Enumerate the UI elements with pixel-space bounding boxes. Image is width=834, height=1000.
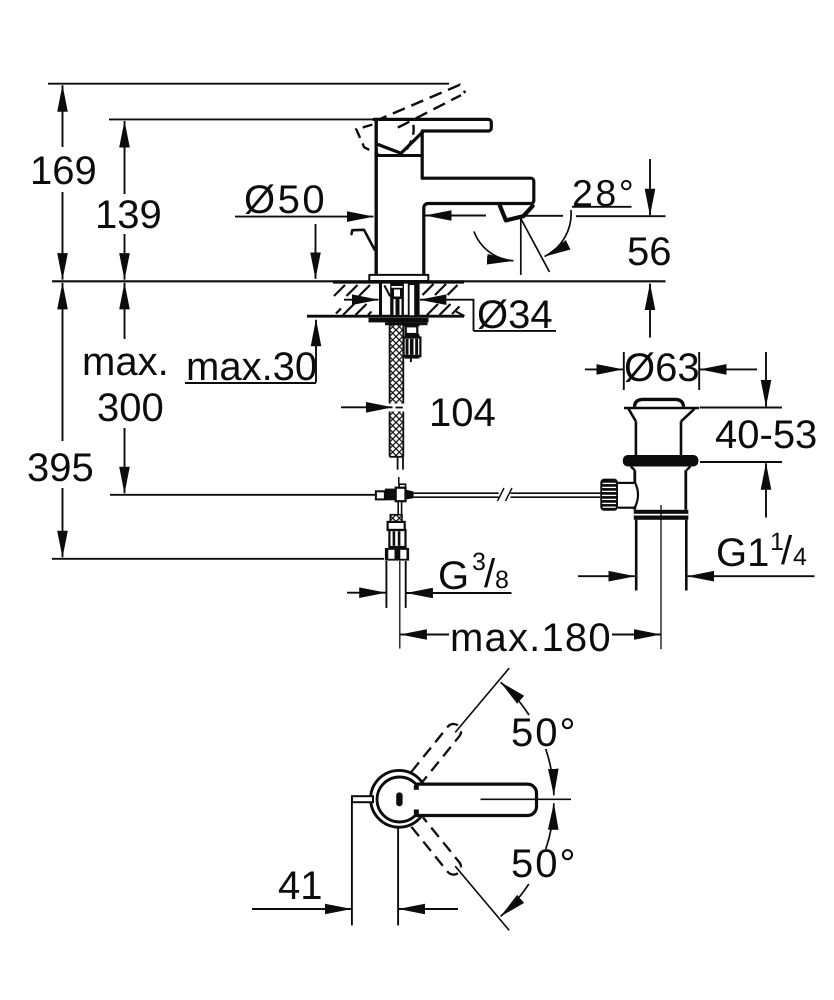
svg-text:50°: 50°	[511, 842, 578, 886]
svg-text:169: 169	[30, 149, 97, 193]
svg-text:Ø63: Ø63	[624, 346, 700, 390]
svg-text:56: 56	[627, 230, 672, 274]
svg-text:8: 8	[495, 566, 509, 594]
svg-text:395: 395	[27, 446, 94, 490]
svg-text:300: 300	[97, 386, 164, 430]
svg-text:104: 104	[429, 391, 496, 435]
svg-text:40-53: 40-53	[715, 413, 817, 457]
svg-text:41: 41	[278, 864, 323, 908]
svg-text:1: 1	[770, 528, 784, 556]
svg-text:max.: max.	[82, 340, 169, 384]
svg-text:28°: 28°	[572, 172, 636, 214]
svg-text:G1: G1	[716, 531, 769, 575]
svg-text:max.180: max.180	[450, 616, 612, 660]
svg-text:50°: 50°	[511, 711, 578, 755]
svg-text:4: 4	[793, 543, 807, 571]
svg-text:3: 3	[472, 548, 486, 576]
svg-text:max.30: max.30	[186, 345, 317, 389]
svg-text:139: 139	[95, 193, 162, 237]
svg-text:Ø50: Ø50	[244, 178, 327, 222]
svg-text:Ø34: Ø34	[477, 293, 553, 337]
svg-text:G: G	[438, 554, 469, 598]
